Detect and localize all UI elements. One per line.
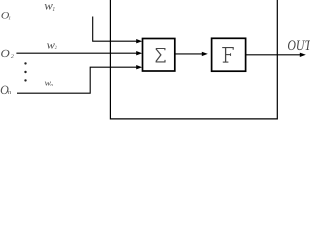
svg-text:OUT: OUT bbox=[287, 38, 310, 54]
svg-text:1: 1 bbox=[52, 6, 55, 13]
svg-text:n: n bbox=[8, 89, 11, 96]
svg-text:w: w bbox=[47, 39, 56, 51]
svg-text:1: 1 bbox=[8, 16, 11, 21]
svg-text:n: n bbox=[50, 82, 53, 87]
svg-text:O: O bbox=[1, 48, 10, 60]
svg-text:2: 2 bbox=[11, 53, 14, 59]
svg-text:2: 2 bbox=[55, 45, 57, 50]
